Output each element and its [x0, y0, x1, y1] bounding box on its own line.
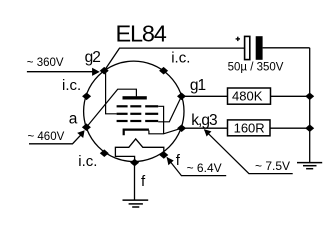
ground right — [297, 163, 322, 169]
right vertical rail — [309, 48, 311, 163]
junction node — [305, 124, 314, 132]
wire capacitor to right rail — [263, 47, 310, 49]
svg-text:i.c.: i.c. — [78, 153, 97, 170]
g3 internal tie to cathode — [158, 106, 163, 134]
anode lead — [86, 89, 136, 127]
grid g3 dashed row — [117, 105, 159, 107]
wire g2 to capacitor top rail — [105, 48, 245, 70]
svg-text:i.c.: i.c. — [62, 77, 81, 94]
svg-text:EL84: EL84 — [116, 21, 167, 47]
pin 1 dot i.c. — [159, 67, 168, 75]
pin 8 dot i.c. — [82, 93, 91, 101]
arrowhead to k,g3 wire — [204, 129, 212, 136]
pin 3 dot k,g3 — [177, 124, 186, 132]
svg-text:160R: 160R — [234, 121, 265, 136]
wire f to ground — [134, 165, 136, 200]
capacitor C1 negative plate — [256, 36, 263, 60]
pin 7 dot a — [82, 123, 91, 131]
cathode lead to pin k,g3 — [149, 128, 182, 134]
wire 480K to rail — [271, 95, 310, 97]
wire k,g3 to 160R — [182, 127, 228, 129]
svg-text:~ 460V: ~ 460V — [28, 131, 65, 143]
resistor 480K — [228, 88, 271, 104]
tube envelope circle — [84, 61, 184, 161]
anode plate bar — [123, 96, 147, 99]
svg-text:~ 7.5V: ~ 7.5V — [255, 159, 290, 173]
pin 9 dot g2 — [100, 67, 109, 75]
resistor 160R — [228, 120, 271, 136]
svg-text:~ 360V: ~ 360V — [27, 57, 64, 69]
pin 5 dot f — [130, 159, 139, 167]
pin 2 dot g1 — [177, 93, 186, 101]
plus polarity mark — [236, 37, 240, 41]
grid g2 dashed row — [117, 113, 159, 115]
callout ~7.5V — [205, 130, 293, 174]
wire ~460V feed — [29, 135, 81, 144]
svg-text:g1: g1 — [190, 77, 206, 94]
wire ~360V feed — [27, 71, 93, 73]
arrowhead to pin g2 — [92, 68, 100, 76]
svg-text:a: a — [69, 111, 78, 128]
svg-text:i.c.: i.c. — [171, 49, 190, 66]
svg-text:g2: g2 — [85, 49, 101, 66]
svg-text:50µ / 350V: 50µ / 350V — [228, 61, 284, 73]
g1 lead to pin — [158, 96, 181, 122]
g2 lead into screen grid — [106, 72, 117, 114]
svg-text:~ 6.4V: ~ 6.4V — [187, 161, 222, 175]
wire 160R to rail — [270, 127, 310, 129]
arrowhead to pin a — [77, 130, 84, 138]
pin 4 dot f — [159, 151, 168, 159]
pin 6 dot i.c. — [100, 149, 109, 157]
svg-text:k,g3: k,g3 — [191, 112, 217, 129]
svg-text:480K: 480K — [232, 89, 263, 104]
wire g1 to 480K — [182, 95, 228, 97]
ground center — [123, 200, 149, 207]
callout ~6.4V — [167, 157, 226, 175]
grid g1 dashed row — [117, 120, 159, 122]
junction node — [305, 93, 314, 101]
arrowhead to f pin — [167, 157, 174, 165]
capacitor C1 positive plate — [245, 36, 250, 59]
heater filament — [115, 139, 163, 162]
cathode bar — [124, 130, 149, 136]
